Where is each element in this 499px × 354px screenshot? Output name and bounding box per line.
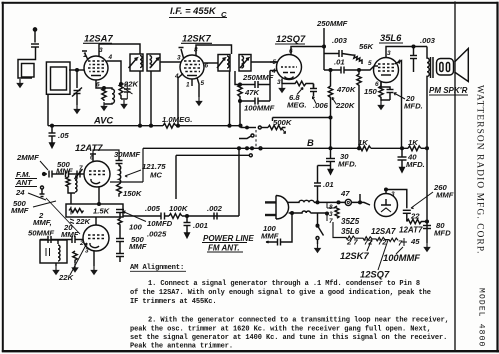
node AVC right <box>239 124 242 127</box>
ground under 12SK7 <box>196 97 201 105</box>
leader 22K lower <box>70 243 87 275</box>
wire AVC to volume top <box>240 126 242 128</box>
svg-text:3: 3 <box>329 211 333 218</box>
ground switch <box>315 244 320 252</box>
antenna terminal <box>33 28 36 31</box>
svg-text:MMF: MMF <box>261 232 279 241</box>
switch contact B line <box>259 147 262 150</box>
node AVC left <box>51 124 54 127</box>
node loop-grid junction <box>76 69 79 72</box>
label 121.75 MC <box>142 162 166 180</box>
resistor fm ant shunt <box>66 177 70 190</box>
svg-text:MMF: MMF <box>11 206 29 215</box>
node .001 tap <box>186 215 189 218</box>
svg-text:7: 7 <box>79 165 83 172</box>
wire to pot <box>262 127 269 129</box>
fm ant terminal <box>40 186 45 197</box>
IF transformer 2 primary <box>217 55 230 72</box>
pin 3 lead 35Z5 <box>385 190 387 194</box>
svg-text:1K: 1K <box>358 138 369 147</box>
resistor 22K lower <box>73 251 77 263</box>
tube 35L6 envelope <box>374 58 399 83</box>
svg-text:250MMF: 250MMF <box>316 19 348 28</box>
capacitor 20MFD cathode <box>381 87 394 100</box>
tube 12AT7 section A envelope <box>84 161 110 187</box>
wire 12SK7 plate to IF2 gap <box>204 62 218 64</box>
wire 35Z5 cathode loop <box>386 190 407 209</box>
tube 35L6 cathode <box>381 74 391 76</box>
choke upper <box>287 200 314 202</box>
underline 12SA7 <box>83 42 112 44</box>
capacitor 50MMF fm <box>40 236 84 243</box>
wire 12AT7a top to B <box>93 148 143 182</box>
label 100 MMF line <box>261 224 279 241</box>
svg-text:35L6: 35L6 <box>341 227 360 236</box>
plug body <box>276 196 289 220</box>
ground under 12SA7 osc <box>101 102 106 110</box>
svg-text:6: 6 <box>375 81 379 88</box>
svg-text:12SQ7: 12SQ7 <box>360 269 390 280</box>
wire det box to grid <box>57 240 59 245</box>
svg-text:peak the osc. trimmer at 1620: peak the osc. trimmer at 1620 Kc. with t… <box>130 326 431 334</box>
svg-text:12SA7: 12SA7 <box>371 227 396 236</box>
IF transformer 1 secondary <box>147 54 160 71</box>
underline 12SK7 <box>181 42 212 44</box>
wire line lower <box>310 213 327 214</box>
node diode chain bottom <box>239 100 242 103</box>
svg-text:MMF: MMF <box>61 230 79 239</box>
wire IF2 secondary return <box>235 71 240 85</box>
capacitor in det box <box>46 248 50 256</box>
svg-text:2MMF: 2MMF <box>16 153 39 162</box>
resistor 220K <box>328 70 332 110</box>
svg-text:IF trimmers at 455Kc.: IF trimmers at 455Kc. <box>130 298 217 306</box>
resistor 1K first <box>358 146 371 151</box>
AVC bus wire right <box>176 125 241 127</box>
switch contact volume <box>258 126 261 129</box>
svg-text:.003: .003 <box>332 36 348 45</box>
svg-text:56K: 56K <box>359 42 375 51</box>
wire loop to 12SA7 grid <box>69 69 84 71</box>
svg-text:45: 45 <box>410 237 420 246</box>
box fm detector coil <box>40 240 67 263</box>
svg-text:1.5K: 1.5K <box>93 207 111 216</box>
resistor 6.8MEG <box>282 81 314 86</box>
pin 5 lead <box>270 61 278 63</box>
ground under 35L6 cathode <box>378 101 383 109</box>
node osc grid <box>103 87 106 90</box>
svg-text:5: 5 <box>368 60 372 67</box>
resistor 150 cathode 35L6 <box>379 86 383 99</box>
svg-text:MFD.: MFD. <box>406 160 425 169</box>
ground arrow 40MFD <box>400 165 405 173</box>
pin 6 plate 12AT7a <box>90 154 96 162</box>
svg-text:.001: .001 <box>193 221 208 230</box>
svg-text:2. With the generator connect: 2. With the generator connected to a tra… <box>148 317 449 325</box>
underline 35L6 <box>379 42 403 44</box>
pin labels 35L6 <box>368 50 401 88</box>
node 6.8meg to .006 <box>313 84 315 89</box>
filament string resistors <box>333 222 398 242</box>
pin 3 lead ground <box>281 79 283 85</box>
svg-text:12SA7: 12SA7 <box>84 33 113 44</box>
tube 12SK7 grids <box>184 61 200 72</box>
node box1 top <box>98 203 101 206</box>
wall plug prong lower <box>265 214 276 216</box>
label 35L6 <box>380 32 402 43</box>
underline FM ANT <box>15 179 37 187</box>
label 30 MFD <box>338 152 357 169</box>
pin 1 grid cap lead <box>82 51 88 60</box>
leader 121.75MC <box>125 170 141 177</box>
svg-text:.0025: .0025 <box>147 230 167 239</box>
tube 12SA7 cathode <box>91 75 101 77</box>
wire lamp to 35Z5 <box>351 202 370 205</box>
tube 12SA7 envelope <box>84 56 108 80</box>
svg-text:.05: .05 <box>58 131 69 140</box>
svg-text:22K: 22K <box>58 273 75 282</box>
wire screen gnd join <box>121 98 127 100</box>
svg-text:FM ANT.: FM ANT. <box>208 244 240 253</box>
wire IF1 secondary to 12SK7 grid <box>160 61 181 63</box>
capacitor .003 plate <box>410 47 417 73</box>
svg-text:.01: .01 <box>323 180 334 189</box>
capacitor 30MMF <box>116 156 123 164</box>
underline POWER LINE <box>202 243 247 253</box>
svg-text:22: 22 <box>410 212 420 221</box>
filament tap cap <box>401 238 407 246</box>
node diode chain top <box>239 83 242 86</box>
svg-text:220K: 220K <box>335 101 356 110</box>
svg-text:5: 5 <box>201 80 205 87</box>
resistor 22K screen <box>119 84 123 99</box>
svg-text:470K: 470K <box>336 85 357 94</box>
label PM SPK'R <box>429 86 468 95</box>
node 40MFD tap <box>401 147 404 150</box>
label 500 MMF lower <box>129 235 147 251</box>
svg-text:3: 3 <box>177 55 181 62</box>
svg-text:MFD: MFD <box>434 229 451 238</box>
node screen junction <box>120 83 123 86</box>
wire .01 to 30MFD <box>318 165 331 167</box>
wire plug down to cap <box>284 213 292 242</box>
svg-text:ANT: ANT <box>15 178 33 187</box>
svg-text:72: 72 <box>364 238 373 247</box>
filament pin numbers <box>346 237 420 248</box>
ground arrow .001 <box>185 230 190 238</box>
svg-text:3: 3 <box>277 79 281 86</box>
svg-text:Peak the antenna trimmer.: Peak the antenna trimmer. <box>130 343 233 351</box>
node AVC IF1 <box>139 124 142 127</box>
output transformer primary <box>427 47 429 149</box>
svg-text:30MMF: 30MMF <box>114 150 140 159</box>
IF transformer 1 primary <box>129 54 144 71</box>
ground B minus <box>424 243 429 251</box>
tube 12AT7b plate lead <box>95 217 97 225</box>
svg-text:47K: 47K <box>244 88 261 97</box>
capacitor 100MMF line <box>266 239 284 246</box>
svg-text:MMF: MMF <box>129 242 147 251</box>
resistor 22 ohm <box>407 219 427 223</box>
switch dashed link <box>255 130 257 147</box>
resistor 470K <box>357 70 361 148</box>
svg-text:500K: 500K <box>273 118 293 127</box>
node line upper <box>316 201 319 204</box>
pin 5 grid lead 35L6 <box>374 65 378 67</box>
leader 2MMF <box>40 161 48 170</box>
pin 4 screen lead <box>107 61 122 84</box>
wire loop bottom to AVC <box>48 94 52 125</box>
svg-text:100: 100 <box>129 223 143 232</box>
svg-text:WATTERSON RADIO MFG. CORP.: WATTERSON RADIO MFG. CORP. <box>475 85 485 255</box>
svg-text:12SK7: 12SK7 <box>182 33 211 44</box>
IF frequency note <box>169 5 227 19</box>
pin 4 lead <box>270 70 277 72</box>
node B+ cap <box>426 220 429 223</box>
capacitor 30MFD <box>326 148 335 167</box>
pin 6 plate lead 12SQ7 <box>291 47 324 55</box>
svg-text:100K: 100K <box>169 204 189 213</box>
resistor 47K <box>238 85 242 102</box>
capacitor .005 <box>161 213 165 220</box>
arrow 20MFD <box>394 93 405 99</box>
resistor 1K second <box>408 146 421 151</box>
resistor 100K series <box>169 214 182 219</box>
leader gang link <box>46 198 80 234</box>
pin 3 grid cap 12SK7 <box>179 48 184 59</box>
label 500 MMF fm <box>56 160 73 176</box>
node 220K top <box>329 69 332 72</box>
svg-text:POWER LINE: POWER LINE <box>203 234 254 243</box>
wiper arrow volume <box>282 129 286 134</box>
svg-text:.002: .002 <box>207 204 223 213</box>
wire cathode to resistor <box>381 82 390 101</box>
resistor 150K fm <box>117 184 122 197</box>
resistor 100 ohm <box>118 213 122 239</box>
svg-text:3: 3 <box>99 47 103 54</box>
capacitor 260MMF <box>403 210 411 221</box>
arrow 220K <box>332 98 337 105</box>
tube 12AT7b cathode <box>90 243 99 248</box>
svg-text:12SK7: 12SK7 <box>340 250 369 261</box>
wire diode chain to volume <box>239 101 241 128</box>
wire IF1 returns to AVC <box>140 71 151 126</box>
svg-text:6: 6 <box>96 82 100 89</box>
wire plate to IF1 <box>99 44 140 54</box>
tube 12SK7 envelope <box>180 55 204 79</box>
svg-text:3: 3 <box>387 50 391 57</box>
capacitor 2MMF <box>49 171 52 178</box>
coupling loop small <box>22 64 35 78</box>
wire fm out bus <box>123 215 169 217</box>
svg-text:MODEL 4800: MODEL 4800 <box>477 288 486 348</box>
node B switch mid <box>251 147 254 150</box>
pin 4 screen lead 35L6 <box>395 61 402 149</box>
border frame top <box>2 2 499 4</box>
label 6.8 MEG <box>287 93 307 110</box>
svg-text:MEG.: MEG. <box>287 101 307 110</box>
resistor 500K volume <box>268 125 285 129</box>
resistor 56K diagonal <box>352 55 362 64</box>
pin 5 cathode lead <box>197 78 199 98</box>
node B switch left <box>246 147 249 150</box>
coil fm ant shunt <box>75 176 77 192</box>
ground under antenna trimmer <box>76 94 78 106</box>
svg-text:5: 5 <box>273 59 277 66</box>
ground det box <box>55 263 57 266</box>
capacitor screen bypass <box>121 84 133 99</box>
capacitor 80MFD <box>423 226 431 229</box>
leader 500MMF osc <box>33 201 56 207</box>
tube 35Z5 envelope <box>375 194 398 217</box>
capacitor 100MMF diode <box>240 98 270 105</box>
wire 12AT7b cathode down <box>93 251 95 266</box>
svg-text:12AT7: 12AT7 <box>75 142 103 153</box>
svg-text:set the signal generator at 14: set the signal generator at 1400 Kc. and… <box>130 334 447 342</box>
wire shunt join <box>68 190 75 204</box>
tube 35Z5 filament <box>381 208 391 212</box>
svg-text:12AT7: 12AT7 <box>399 226 423 235</box>
speaker cone <box>455 49 469 82</box>
svg-text:7: 7 <box>329 218 333 225</box>
leader 12SK7 filament <box>367 239 372 251</box>
svg-text:MFD.: MFD. <box>338 160 357 169</box>
wire to 500MMF <box>52 173 64 175</box>
node volume in <box>246 126 248 128</box>
capacitor in box <box>70 207 72 215</box>
svg-text:4: 4 <box>174 73 179 80</box>
node plate tap .003 <box>412 45 415 48</box>
capacitor 500MMF column <box>116 239 124 242</box>
capacitor .01 line <box>314 166 321 203</box>
filament string labels <box>341 217 423 236</box>
svg-text:4: 4 <box>108 54 113 61</box>
stray contact circle <box>251 134 254 137</box>
tube 12SQ7 diode plates <box>283 72 295 74</box>
resistor 1.5K inside <box>69 209 84 213</box>
svg-text:2 7: 2 7 <box>346 238 358 247</box>
coil in det box <box>58 245 60 261</box>
wire antenna to loop <box>18 47 36 78</box>
trimmer capacitor antenna <box>72 88 82 97</box>
wire pot top return <box>273 118 331 122</box>
heater pin labels 35Z5 <box>329 204 333 225</box>
svg-text:24: 24 <box>15 188 25 197</box>
wire to fm grid <box>69 173 85 175</box>
pin labels 12SA7 <box>83 47 113 89</box>
svg-text:PM SPK'R: PM SPK'R <box>429 86 468 95</box>
label 500 MMF osc <box>11 199 29 215</box>
underline 12SQ7 <box>275 43 305 45</box>
ground under 12SQ7 <box>279 84 284 92</box>
capacitor 10MFD electrolytic <box>116 210 124 213</box>
label FM ANT <box>15 170 33 187</box>
ground 22K lower <box>72 264 77 272</box>
leader 6.8MEG <box>297 88 303 95</box>
capacitor .0025 column <box>116 254 124 257</box>
svg-text:7: 7 <box>398 239 403 248</box>
fm line out segment <box>176 154 249 156</box>
wire 220K to B <box>330 110 332 148</box>
underline PM SPK'R <box>429 94 468 96</box>
wire fm box riser <box>175 155 177 199</box>
wire diode returns <box>269 71 271 102</box>
tube 35Z5 plate <box>381 199 391 205</box>
tube 12SQ7 cathode <box>285 77 294 79</box>
capacitor .003 coupling <box>324 50 352 57</box>
svg-text:4: 4 <box>396 59 401 66</box>
svg-text:150K: 150K <box>123 189 143 198</box>
node B end <box>426 147 429 150</box>
pin labels 12SQ7 <box>271 48 293 86</box>
resistor oscillator grid <box>102 88 106 101</box>
speaker voice coil <box>437 59 454 76</box>
border frame right <box>496 2 498 353</box>
AVC bus wire <box>52 125 163 127</box>
leader 10MFD <box>123 211 146 222</box>
trimmer fm grid <box>75 169 83 179</box>
B bus wire second <box>371 147 408 149</box>
svg-text:.003: .003 <box>420 36 436 45</box>
capacitor 500MMF fm <box>66 171 69 178</box>
capacitor .001 <box>184 216 191 230</box>
tube 12AT7a grids <box>89 171 105 175</box>
svg-text:250MMF: 250MMF <box>242 73 274 82</box>
pilot lamp 47 <box>345 199 351 205</box>
capacitor .05 AVC <box>49 126 56 140</box>
wire riser fm bus <box>238 148 240 216</box>
wire antenna down <box>34 31 36 43</box>
wire volume junction <box>241 127 257 129</box>
label 12SA7 <box>84 33 113 44</box>
pin 8 plate lead 12SK7 <box>196 45 232 56</box>
choke lower <box>289 211 311 213</box>
node 30MFD tap <box>329 147 332 150</box>
pin 3 plate lead 35L6 <box>386 47 427 58</box>
svg-text:6: 6 <box>289 48 293 55</box>
arrow .006 <box>313 97 317 104</box>
capacitor .006 <box>310 84 317 96</box>
svg-text:2: 2 <box>79 240 84 247</box>
node plate junction <box>323 45 326 48</box>
loop antenna main <box>46 62 70 94</box>
sidebar divider rule <box>454 2 456 350</box>
svg-text:of the 12SA7. With only enoug: of the 12SA7. With only enough signal to… <box>130 289 431 297</box>
pin 4 lead down to AVC <box>178 74 183 126</box>
svg-text:MFD.: MFD. <box>404 102 423 111</box>
output transformer core <box>431 57 434 78</box>
tube 12AT7a cathode <box>91 179 100 184</box>
wire B+ down <box>426 148 428 243</box>
leader 260MMF <box>411 192 433 209</box>
svg-text:AM Alignment:: AM Alignment: <box>130 264 184 272</box>
svg-text:3: 3 <box>391 191 395 198</box>
wire after 100K <box>182 215 239 217</box>
svg-text:47: 47 <box>340 189 350 198</box>
wire heater taps <box>327 202 335 221</box>
svg-text:MMF: MMF <box>436 191 454 200</box>
svg-text:35Z5: 35Z5 <box>341 217 360 226</box>
leader 24 <box>28 193 46 200</box>
wire IF2 primary return <box>229 71 231 126</box>
node 35Z5 top <box>385 188 388 191</box>
label 80 MFD <box>434 221 451 238</box>
pin 3 plate lead <box>98 44 100 57</box>
label 12SQ7 <box>276 33 306 44</box>
leader 100MMF filament <box>396 247 403 254</box>
svg-text:MC: MC <box>150 171 162 180</box>
tube 12SQ7 grid <box>281 66 297 68</box>
